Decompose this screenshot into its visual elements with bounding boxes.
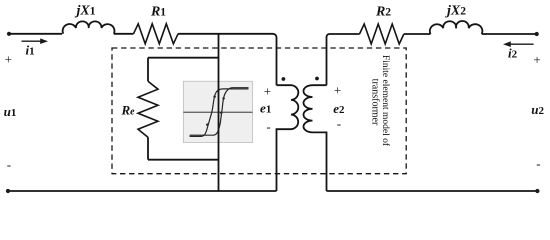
wire: bottom right rail	[327, 190, 538, 192]
wire: Re bottom lead	[147, 137, 149, 160]
wire: Re top connection	[148, 57, 219, 59]
wire: secondary winding bottom lead	[313, 132, 327, 191]
wire: core element vertical branch through B-H box	[218, 34, 220, 191]
svg-text:+: +	[334, 83, 341, 98]
wire: Re bottom connection	[148, 159, 219, 161]
svg-text:u2: u2	[531, 102, 544, 117]
svg-text:Finite element model of: Finite element model of	[380, 55, 391, 147]
svg-text:+: +	[533, 52, 540, 67]
node: right bottom terminal	[535, 189, 539, 193]
node: secondary polarity dot	[315, 77, 319, 81]
node: primary polarity dot	[282, 77, 286, 81]
svg-text:e2: e2	[333, 101, 345, 116]
svg-text:-: -	[266, 119, 270, 134]
svg-text:-: -	[337, 116, 341, 131]
svg-text:i2: i2	[508, 46, 518, 61]
arrow: current i1	[22, 38, 49, 44]
wire: jX1 to R1	[114, 33, 134, 35]
hysteresis curve left branch	[190, 89, 249, 136]
arrow: current i2	[503, 41, 534, 47]
node: right top terminal	[535, 32, 539, 36]
svg-text:jX2: jX2	[445, 4, 466, 19]
transformer secondary winding L2	[304, 85, 327, 132]
svg-text:e1: e1	[260, 101, 271, 116]
dashed box: finite element model boundary	[112, 48, 406, 174]
svg-text:transformer: transformer	[369, 79, 380, 126]
resistor R2	[360, 24, 404, 44]
inductor jX1	[63, 21, 115, 33]
node: left bottom terminal	[6, 189, 10, 193]
wire: Re top lead	[147, 58, 149, 81]
resistor R1	[134, 24, 179, 44]
svg-text:u1: u1	[4, 104, 17, 119]
B-H hysteresis block background	[183, 81, 252, 142]
transformer primary winding L1	[277, 85, 299, 129]
svg-text:+: +	[5, 52, 12, 67]
svg-text:R2: R2	[375, 5, 391, 20]
inductor jX2	[430, 21, 483, 34]
wire: primary winding bottom lead	[277, 129, 292, 191]
svg-text:R1: R1	[150, 5, 166, 20]
wire: R1 to primary winding top (rounded corner down)	[178, 34, 276, 85]
wire: secondary winding top lead to R2 (rounded corner)	[327, 34, 360, 85]
wire: bottom left rail	[8, 190, 277, 192]
svg-text:-: -	[536, 156, 540, 171]
svg-text:i1: i1	[25, 43, 34, 58]
B-H block horizontal axis	[183, 111, 252, 113]
wire: jX2 to right terminal	[482, 33, 537, 35]
svg-text:jX1: jX1	[75, 4, 96, 19]
svg-text:+: +	[264, 84, 271, 99]
marker dots on hysteresis curves	[206, 95, 225, 126]
svg-text:-: -	[7, 157, 11, 172]
resistor Re	[138, 81, 158, 137]
hysteresis curve right branch	[190, 88, 249, 136]
node: left top terminal	[7, 32, 11, 36]
svg-text:Re: Re	[120, 103, 135, 118]
wire: left terminal to jX1	[9, 33, 62, 35]
wire: R2 to jX2	[404, 33, 431, 35]
